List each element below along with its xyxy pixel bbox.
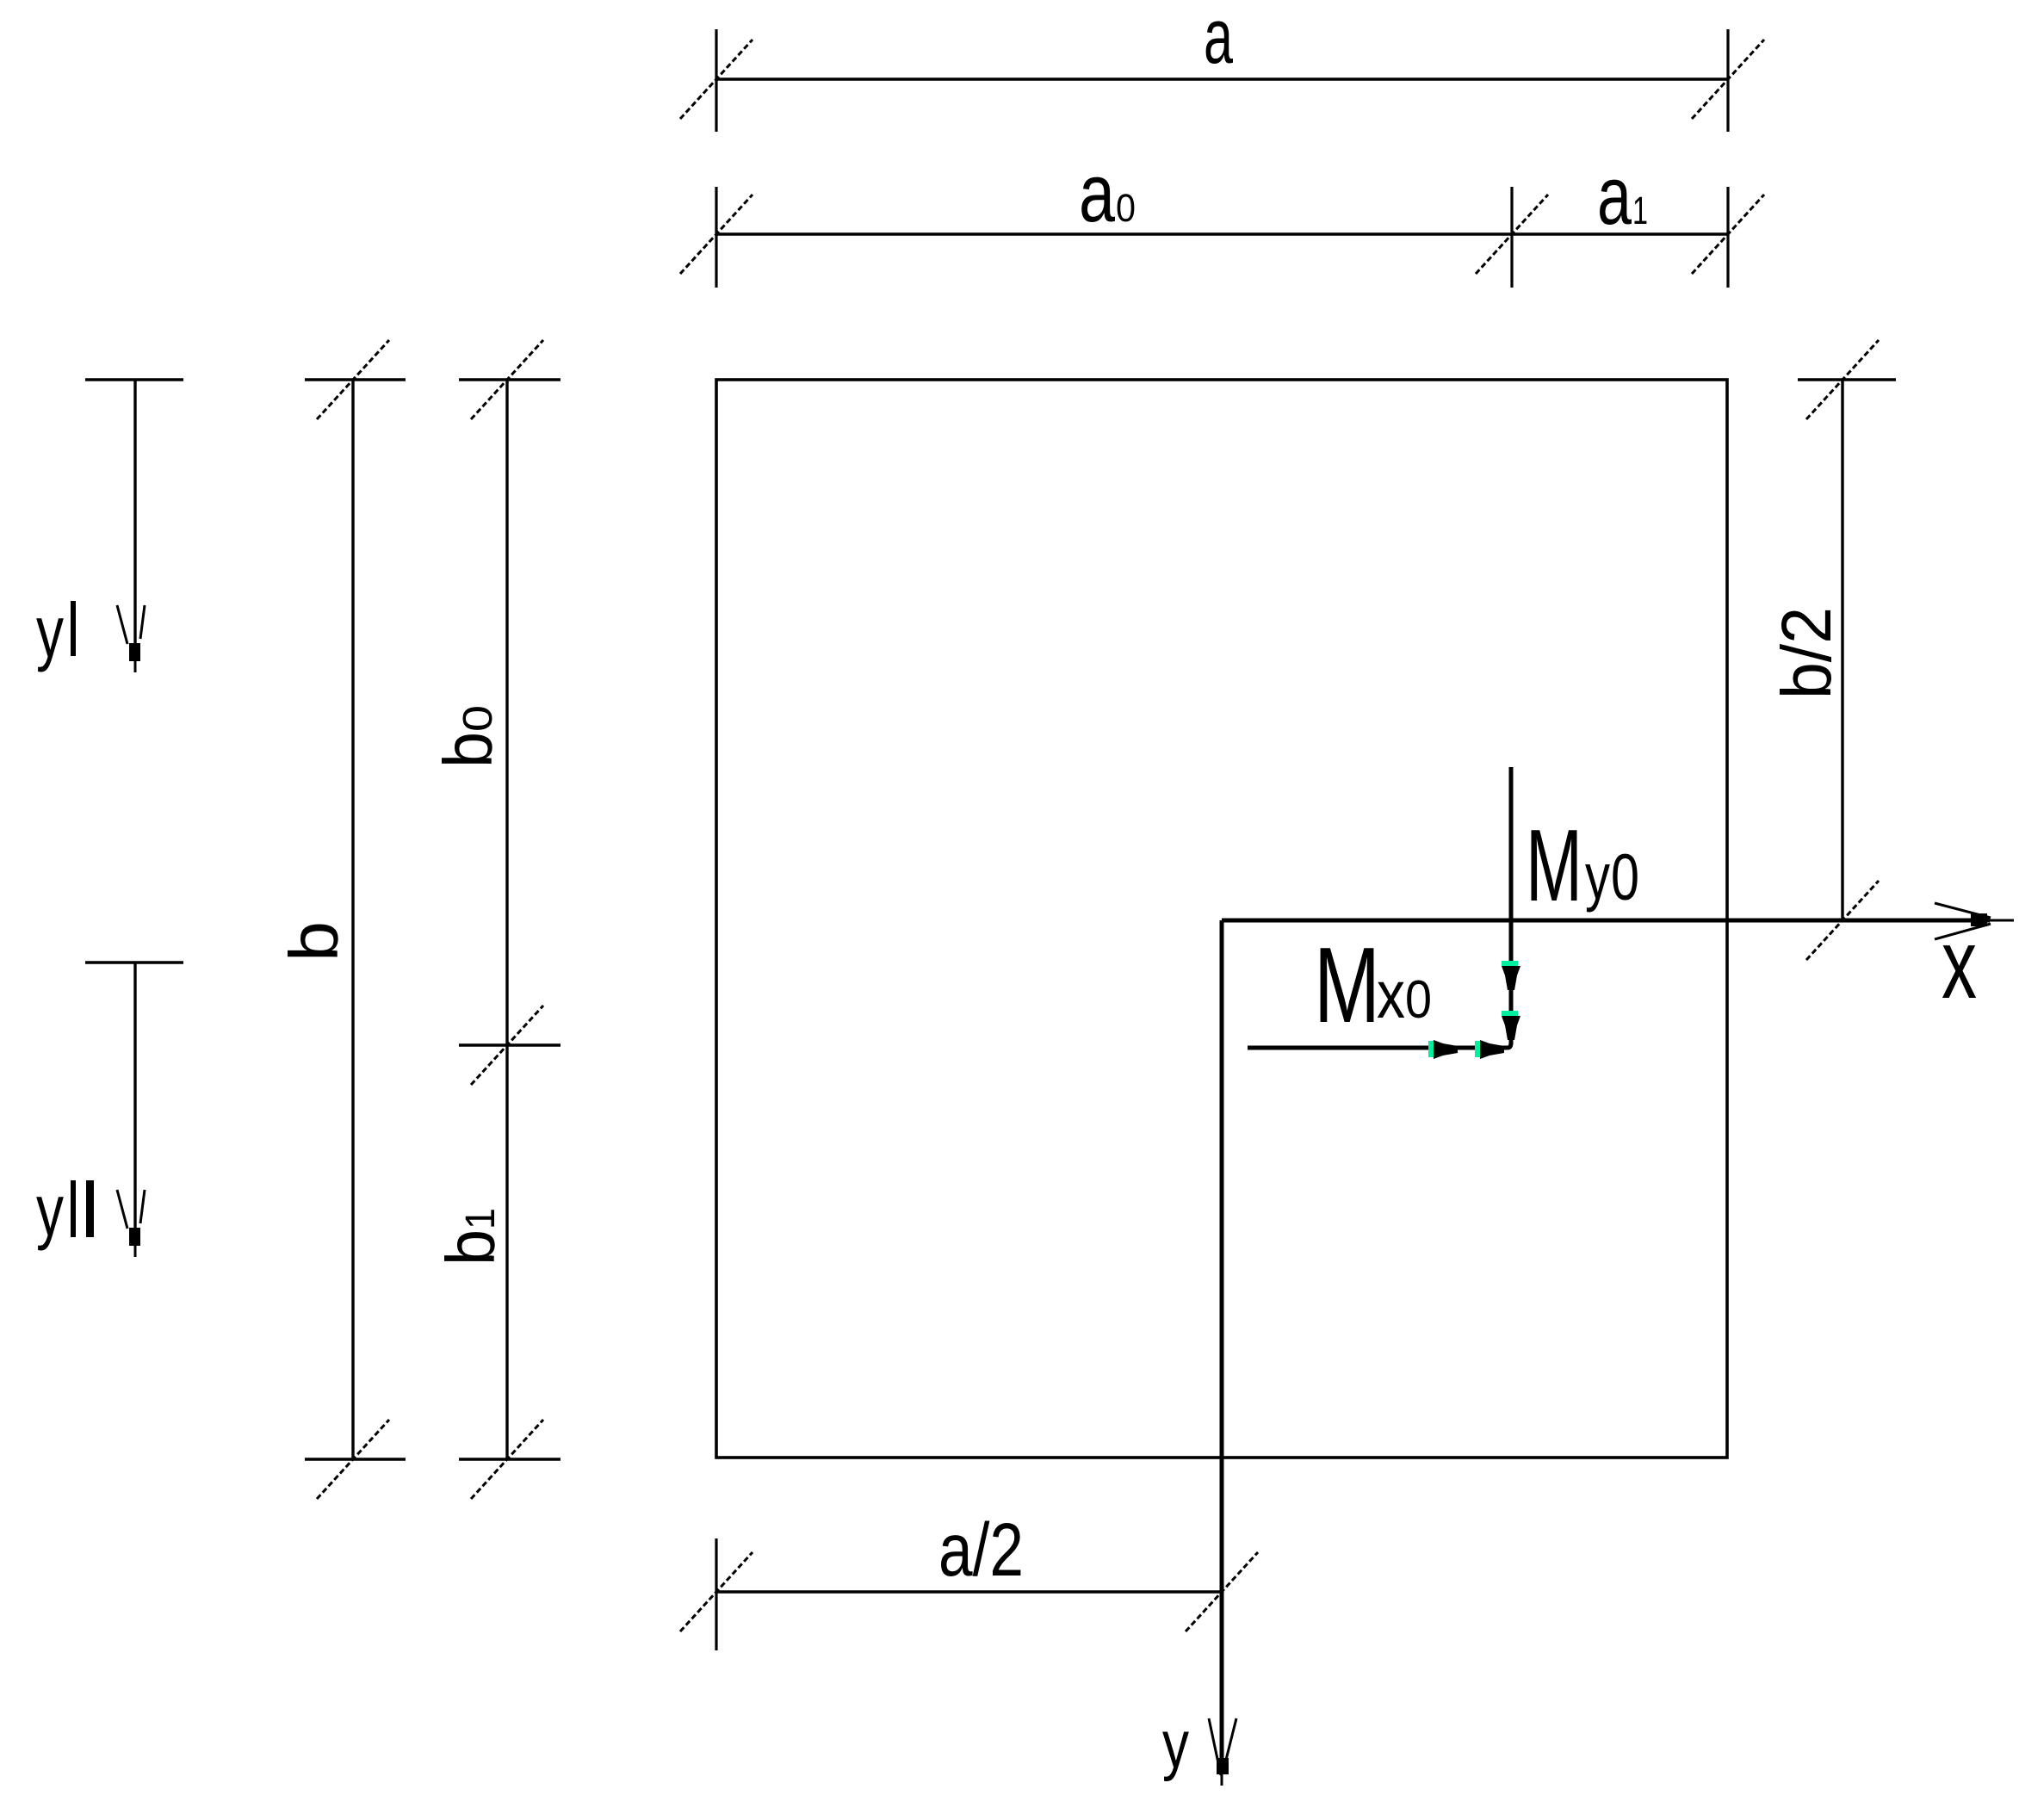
yII marker top bar — [85, 961, 183, 963]
svg-text:a: a — [1597, 150, 1632, 242]
moment Mx0 horizontal line — [1248, 1046, 1508, 1050]
Mx0 arrowhead 2 teal bar — [1475, 1041, 1480, 1057]
dimension b: tick slash bottom — [317, 1420, 389, 1499]
yII marker line — [133, 963, 136, 1228]
svg-text:a/2: a/2 — [938, 1508, 1024, 1592]
x axis arrow lower wing — [1935, 924, 1991, 939]
x axis arrow overshoot — [1987, 919, 2014, 922]
dimension b/2: tick slash bottom — [1806, 881, 1879, 960]
y axis arrow tip block — [1217, 1758, 1229, 1774]
dimension b0/b1: bottom bar — [459, 1458, 560, 1460]
y axis arrow right wing — [1223, 1718, 1236, 1770]
dimension b0/b1: tick slash middle — [471, 1006, 543, 1085]
dimension a0/a1: tick slash left — [680, 195, 752, 274]
y axis arrow overshoot — [1221, 1774, 1223, 1786]
svg-text:a: a — [1204, 0, 1234, 80]
yII arrow left wing — [117, 1190, 127, 1229]
dimension b0/b1: top bar — [459, 378, 560, 381]
x axis arrow tip block — [1971, 913, 1987, 926]
My0 arrowhead 1 teal bar — [1502, 961, 1518, 966]
y axis line — [1220, 920, 1224, 1758]
x axis arrow upper wing — [1935, 903, 1991, 918]
dimension a/2: dimension line — [716, 1590, 1222, 1593]
dimension a/2: tick slash right — [1186, 1552, 1258, 1631]
dimension b: bottom bar — [305, 1458, 406, 1460]
svg-text:x: x — [1942, 909, 1977, 1019]
dimension a0/a1: extension line right — [1726, 187, 1729, 288]
dimension a0/a1: tick slash right — [1692, 195, 1764, 274]
dimension a/2: extension line left — [715, 1538, 717, 1650]
svg-text:0: 0 — [1405, 970, 1432, 1030]
dimension b/2: dimension line — [1841, 380, 1843, 920]
yI arrow tip block — [129, 643, 140, 661]
svg-text:0: 0 — [1116, 186, 1136, 230]
dimension b0/b1: middle bar — [459, 1043, 560, 1046]
moment My0 vertical line — [1509, 767, 1514, 1044]
dimension a: extension line left — [715, 29, 717, 132]
svg-text:M: M — [1314, 926, 1380, 1045]
dimension b: tick slash top — [317, 340, 389, 419]
moment elbow — [1508, 1043, 1511, 1048]
dimension a: tick slash right — [1692, 40, 1764, 119]
dimension a0/a1: tick slash middle — [1476, 195, 1548, 274]
dimension b0/b1: tick slash top — [471, 340, 543, 419]
My0 arrowhead 1 — [1502, 966, 1520, 990]
svg-text:b/2: b/2 — [1768, 607, 1846, 699]
Mx0 arrowhead 1 teal bar — [1428, 1041, 1434, 1057]
yII arrow overshoot — [134, 1246, 137, 1257]
dimension a: extension line right — [1726, 29, 1729, 132]
dimension b0/b1: tick slash bottom — [471, 1420, 543, 1499]
plate outline rectangle — [716, 380, 1727, 1458]
dimension b/2: tick slash top — [1806, 340, 1879, 419]
dimension b: top bar — [305, 378, 406, 381]
svg-text:y: y — [36, 591, 64, 672]
yI arrow overshoot — [134, 661, 137, 672]
svg-text:M: M — [1526, 808, 1582, 923]
svg-text:y: y — [1162, 1706, 1189, 1782]
x axis line — [1222, 919, 1990, 923]
y axis arrow left wing — [1209, 1718, 1221, 1775]
svg-text:b: b — [276, 921, 352, 962]
yII arrow tip block — [129, 1228, 140, 1246]
yII arrow right wing — [140, 1190, 145, 1223]
My0 arrowhead 2 teal bar — [1502, 1011, 1518, 1016]
svg-text:1: 1 — [1632, 189, 1648, 232]
dimension a0/a1: extension line middle — [1510, 187, 1513, 288]
My0 arrowhead 2 — [1502, 1016, 1520, 1040]
Mx0 arrowhead 2 — [1480, 1040, 1504, 1059]
svg-text:a: a — [1079, 147, 1115, 239]
svg-text:0: 0 — [1611, 841, 1639, 914]
svg-text:y: y — [36, 1170, 64, 1251]
yI arrow left wing — [117, 605, 127, 644]
dimension a0/a1: extension line left — [715, 187, 717, 288]
dimension b: dimension line — [351, 380, 354, 1459]
Mx0 arrowhead 1 — [1434, 1040, 1458, 1059]
dimension b0/b1: dimension line — [505, 380, 508, 1459]
yI arrow right wing — [140, 605, 145, 639]
dimension a: dimension line — [716, 77, 1728, 80]
svg-text:y: y — [1585, 840, 1610, 913]
dimension a0/a1: dimension line — [716, 232, 1728, 235]
yI marker line — [133, 380, 136, 643]
dimension b/2: top bar — [1798, 378, 1896, 381]
dimension a/2: tick slash left — [680, 1552, 752, 1631]
yI marker top bar — [85, 378, 183, 381]
svg-text:x: x — [1377, 956, 1405, 1032]
dimension a: tick slash left — [680, 40, 752, 119]
